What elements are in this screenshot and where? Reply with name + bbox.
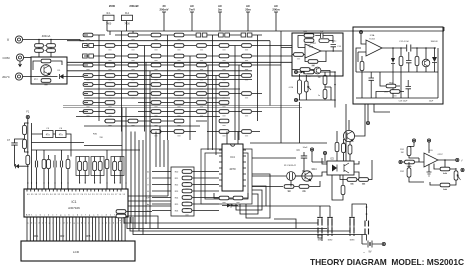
label 20A C — [2, 75, 10, 79]
diode D3 — [16, 164, 28, 168]
resistor R15 (matrix row 2) — [242, 44, 252, 50]
switch SW2 — [327, 217, 333, 236]
label IC6 — [429, 150, 433, 152]
IC1 to LCD pin wires — [27, 217, 125, 241]
svg-text:COM: COM — [3, 56, 11, 60]
junction comb x31.5 — [31, 182, 32, 183]
resistor R35 vertical — [323, 75, 327, 84]
label bank R26 — [175, 211, 178, 213]
long wire to battery — [133, 217, 367, 235]
potentiometer VR2 0.1M — [298, 80, 302, 94]
c9 connect wires — [302, 162, 327, 171]
matrix column wire C — [144, 46, 146, 132]
resistor R43 feedback — [304, 34, 314, 40]
resistor R52 vertical — [47, 159, 51, 168]
junction varistor2 to V wire — [50, 39, 52, 41]
label range 20m — [245, 8, 251, 12]
svg-text:R25: R25 — [175, 204, 178, 206]
resistor in filter group G1 b — [83, 161, 87, 170]
resistor R39 (matrix row 5) — [242, 74, 252, 80]
svg-text:20A°C: 20A°C — [2, 75, 10, 79]
matrix row 5 link wires — [84, 75, 241, 77]
label t out — [461, 160, 463, 163]
long wire to switch SW2 — [127, 217, 327, 229]
wire bus to IC5 area — [250, 142, 327, 144]
IC U4 4070 — [222, 144, 243, 191]
resistor R57 (matrix row 8) — [151, 101, 161, 107]
junction cal b — [334, 84, 336, 86]
resistor R01 in protection box — [41, 59, 51, 65]
diode D5 — [391, 48, 395, 98]
matrix to converter wires — [122, 108, 143, 235]
label F1 — [26, 111, 29, 114]
resistor R38 (matrix row 5) — [219, 74, 229, 80]
filter group G3 lead wires — [115, 157, 121, 184]
wires into IC2B — [270, 48, 292, 106]
resistor R50 — [116, 214, 126, 220]
wire test point down — [27, 119, 29, 188]
resistor R49 — [116, 210, 126, 216]
switch link wires — [318, 218, 354, 242]
resistor R35 (matrix row 5) — [151, 74, 161, 80]
feedback wire — [445, 160, 450, 169]
svg-text:R23: R23 — [175, 191, 178, 193]
R33 to inverting input — [434, 164, 440, 170]
svg-text:4.7k: 4.7k — [443, 173, 447, 175]
resistor R22 vertical — [342, 143, 346, 152]
bus wire range G — [76, 116, 220, 118]
label 4070 — [229, 167, 236, 171]
svg-text:R24: R24 — [175, 198, 178, 200]
junction bat a — [366, 206, 368, 208]
label IC4 — [230, 155, 235, 159]
label 10k — [350, 184, 354, 186]
op-amp U3A triangle — [366, 40, 382, 56]
matrix column wire H — [257, 35, 259, 121]
comb wires up to bus — [37, 150, 69, 161]
svg-text:R26: R26 — [175, 211, 178, 213]
matrix column wire E — [189, 56, 191, 140]
resistor R34b vertical — [323, 89, 327, 98]
resistor R63 (matrix row 9) — [151, 110, 161, 116]
svg-text:DP2: DP2 — [60, 236, 65, 238]
VR top wire — [450, 168, 456, 171]
resistor R23 (matrix row 3) — [242, 54, 252, 60]
junction comb x120.2 — [120, 182, 121, 183]
U6 output wire — [438, 159, 456, 161]
label C6 — [59, 128, 63, 130]
resistor R61 (matrix row 9) — [83, 110, 93, 116]
R49 R50 wires right — [126, 212, 158, 229]
label 9V — [369, 251, 372, 254]
label DP1 — [34, 236, 39, 238]
resistor R16 (matrix row 3) — [83, 54, 94, 58]
label signal A — [147, 171, 149, 174]
svg-text:R20: R20 — [175, 172, 178, 174]
resistor R50 (matrix row 7) — [151, 92, 161, 98]
resistor R28 — [284, 185, 294, 191]
label range 2m — [218, 8, 223, 12]
svg-text:4070: 4070 — [229, 167, 236, 171]
svg-text:10uF: 10uF — [303, 147, 309, 149]
terminal CAL2 — [294, 98, 297, 101]
IC1 bottom segment labels — [26, 214, 127, 217]
resistor R26 (matrix row 4) — [128, 63, 138, 69]
R31 wires — [409, 146, 419, 158]
resistor R31 (matrix row 4) — [242, 63, 252, 69]
long wire to switch SW3 — [130, 217, 350, 231]
matrix column wire K pair — [208, 65, 216, 155]
fuse leads down — [107, 21, 127, 31]
capacitor C19 — [369, 72, 375, 98]
svg-text:IC2B: IC2B — [309, 46, 314, 48]
resistor R59 (matrix row 8) — [197, 101, 207, 107]
IC4 top pin wires to matrix — [227, 132, 238, 145]
label range 200mV — [159, 8, 168, 12]
label C9 — [297, 150, 301, 152]
fuse F1 — [103, 15, 114, 20]
label 1uF — [320, 31, 324, 33]
resistor R60 in bank — [182, 196, 192, 202]
resistor R34 — [440, 183, 450, 189]
resistor R64 (matrix row 9) — [174, 110, 184, 116]
label range AC — [274, 4, 278, 8]
capacitor C9 leads — [303, 152, 305, 171]
svg-text:TL062: TL062 — [369, 38, 376, 40]
resistor R71 (matrix row 10) — [174, 119, 184, 125]
label bank R22 — [175, 185, 178, 187]
junction varistor to V wire — [38, 39, 40, 41]
matrix row 8 link wires — [84, 102, 219, 104]
capacitor C17 — [406, 52, 412, 72]
resistor R53 (matrix row 7) — [219, 92, 229, 98]
AC block bus wires — [356, 48, 438, 98]
resistor R62 (matrix row 9) — [105, 110, 115, 116]
varistor RV3 — [35, 49, 44, 53]
range select stub wires — [164, 12, 276, 31]
resistor R40 — [308, 60, 318, 66]
label 400mA fuse rating — [42, 34, 51, 38]
capacitor C5 47n box — [43, 131, 54, 138]
label 1M — [318, 77, 321, 79]
junction comb x79.6 — [79, 182, 80, 183]
IC U1 A/D converter 7106 — [24, 189, 128, 217]
resistor R14 (matrix row 2) — [219, 44, 229, 50]
label R-2 — [125, 12, 130, 15]
varistor connection wires — [39, 40, 51, 58]
label SW1 — [318, 240, 324, 242]
resistor R36 vertical — [360, 61, 364, 70]
svg-text:2000: 2000 — [109, 4, 116, 8]
IC4 pin ticks — [219, 150, 246, 186]
resistor R41 input — [294, 53, 304, 59]
bank input wires — [152, 172, 171, 211]
resistor R62 in bank — [182, 209, 192, 215]
svg-text:7mV: 7mV — [189, 8, 195, 12]
resistor R70 (matrix row 10) — [151, 119, 161, 125]
R40 loop wires — [305, 51, 326, 62]
junction comb x68 — [67, 182, 68, 183]
matrix row 3 link wires — [84, 55, 292, 57]
resistor R47 vertical — [26, 155, 30, 164]
svg-text:C12 4.7uF: C12 4.7uF — [399, 41, 409, 43]
svg-text:2m: 2m — [218, 8, 223, 12]
label R40 1M — [312, 65, 315, 67]
resistor R2 (matrix row 1) — [128, 33, 138, 39]
resistor R45 (matrix row 6) — [197, 83, 207, 89]
label bank R21 — [175, 178, 178, 180]
bank output wires to IC4 — [192, 172, 219, 211]
svg-text:47n: 47n — [59, 134, 64, 137]
label range 20 — [162, 4, 166, 8]
capacitor C9 — [301, 156, 307, 158]
switch SW1 — [317, 217, 323, 236]
label R31 — [400, 149, 405, 151]
label 10.7k — [407, 166, 412, 168]
label 47k — [302, 191, 306, 193]
resistor in filter group G2 b — [98, 161, 102, 170]
junction comb x114.6 — [114, 182, 115, 183]
resistor R46 (matrix row 6) — [219, 83, 229, 89]
svg-text:OP07: OP07 — [437, 154, 443, 156]
R26 R27 wires — [340, 160, 372, 180]
resistor in filter group G1 a — [78, 161, 82, 170]
resistor R31 vertical — [407, 146, 411, 155]
matrix column wire B — [121, 31, 123, 132]
resistor R65 (matrix row 9) — [197, 110, 207, 116]
diode D2 on mA line — [60, 74, 64, 79]
svg-text:200u: 200u — [332, 41, 336, 43]
resistor R22 (matrix row 3) — [219, 54, 229, 60]
cal network drop wire — [299, 102, 301, 143]
IC1 top pin numbers — [27, 194, 125, 196]
op-amp U2B triangle — [305, 44, 321, 58]
AC block left return — [356, 48, 361, 72]
transistor Q2 9014 — [302, 171, 312, 181]
resistor R33 feedback — [440, 167, 450, 173]
resistor R49 (matrix row 7) — [128, 92, 138, 98]
R37 leads — [400, 48, 402, 98]
capacitor C12f box — [319, 39, 333, 43]
svg-text:200m: 200m — [272, 8, 280, 12]
resistor R42 (matrix row 6) — [128, 83, 138, 89]
capacitor C6 47n box — [56, 131, 67, 138]
range stub top bars — [162, 11, 278, 13]
matrix row 2 link wires — [84, 45, 292, 47]
supply terminal wires — [414, 142, 429, 153]
battery switch wire top — [366, 204, 368, 221]
resistor R39 — [386, 84, 396, 90]
terminal t input — [399, 160, 402, 163]
capacitor C14 — [331, 45, 337, 52]
label R32 — [400, 171, 405, 173]
fuse F2 — [122, 15, 133, 20]
label signal C — [147, 178, 149, 180]
label signal &#937; — [147, 191, 149, 193]
svg-text:R21: R21 — [175, 178, 178, 180]
resistor R41 (matrix row 6) — [105, 83, 115, 89]
corner hook wire Z — [232, 186, 266, 206]
resistor R7 (matrix row 1) — [241, 33, 252, 37]
junction comb x61.5 — [61, 182, 62, 183]
resistor R48 (matrix row 7) — [105, 92, 115, 98]
lower resistor wires — [376, 72, 404, 98]
label LCD — [73, 250, 80, 254]
resistor R20 (matrix row 3) — [174, 54, 184, 60]
resistor R54 vertical — [105, 159, 109, 168]
resistor R11 (matrix row 2) — [151, 44, 161, 50]
svg-text:1M: 1M — [312, 65, 315, 67]
label 10uF — [303, 147, 309, 149]
terminal COM input — [16, 54, 23, 61]
resistor R1 (matrix row 1) — [83, 33, 93, 39]
R30 wires — [402, 158, 424, 168]
calibration network wires — [296, 72, 335, 108]
label 201 — [384, 92, 388, 94]
matrix column top stubs — [110, 31, 133, 35]
IC1 wire verticals to bank — [168, 167, 186, 206]
below-IC4 wires — [214, 193, 248, 198]
mid section wires — [291, 176, 320, 187]
capacitor C16 — [406, 80, 412, 98]
svg-text:C18 10uF: C18 10uF — [399, 101, 409, 103]
resistor R51 vertical — [42, 159, 46, 168]
svg-text:SW3: SW3 — [350, 240, 356, 242]
wires below AC block — [368, 104, 390, 121]
Q5 leads — [425, 48, 427, 72]
junction comb x100.2 — [100, 182, 101, 183]
resistor R38 vertical — [415, 56, 419, 65]
label 200u — [332, 41, 336, 43]
ground symbol — [427, 164, 432, 176]
label 1M — [401, 152, 404, 154]
resistor R64 below IC4 — [233, 196, 243, 202]
svg-text:40 39 38 37 36 35 34 33 32 31: 40 39 38 37 36 35 34 33 32 31 30 29 28 2… — [27, 194, 125, 196]
junction cal c — [334, 99, 336, 101]
resistor R61 in bank — [182, 202, 192, 208]
switch bottom wires — [318, 218, 350, 239]
label range 7mV — [189, 8, 195, 12]
potentiometer VR3 — [305, 81, 312, 92]
label 1.5k — [443, 189, 447, 191]
transistor Q5 — [422, 59, 430, 67]
svg-text:DP1: DP1 — [34, 236, 39, 238]
label TL062 — [310, 43, 317, 45]
svg-text:1M: 1M — [287, 191, 290, 193]
wire hook to switch line — [274, 219, 296, 229]
battery left wire — [361, 235, 363, 245]
matrix row 10 link wires — [104, 120, 207, 122]
comb wires to IC1 right pins — [107, 150, 126, 189]
resistor R32 (matrix row 5) — [83, 74, 93, 80]
label u mark — [363, 252, 365, 254]
resistor R33 (matrix row 5) — [105, 74, 115, 80]
label R30 — [93, 134, 98, 136]
label 9014 — [311, 169, 317, 171]
label C18 10uF — [399, 101, 409, 103]
resistor R27 (matrix row 4) — [151, 63, 161, 69]
switch SW4 battery — [365, 221, 369, 235]
svg-text:IC3A: IC3A — [370, 34, 375, 37]
capacitor C13f — [315, 33, 333, 38]
resistor R34 (matrix row 5) — [128, 74, 138, 80]
resistor R66 (matrix row 9) — [219, 110, 229, 116]
resistor R25 (matrix row 4) — [105, 63, 115, 69]
svg-text:ST-C3039-4Y: ST-C3039-4Y — [284, 165, 297, 167]
label bank R20 — [175, 172, 178, 174]
resistor R56 in bank — [182, 170, 192, 176]
resistor R9 (matrix row 2) — [105, 44, 115, 50]
junction comb x27.8 — [27, 182, 28, 183]
resistor R17 (matrix row 3) — [105, 54, 115, 60]
resistor R36 (matrix row 5) — [174, 74, 184, 80]
label 1N4148 — [430, 41, 438, 43]
corner hook wire C — [246, 174, 270, 218]
routing loop wire inner — [205, 153, 248, 199]
terminal TP2 — [323, 151, 326, 154]
resistor R12 (matrix row 2) — [174, 44, 184, 50]
filter group G3 box — [111, 157, 124, 176]
long wire to switch SW1 — [124, 217, 318, 223]
potentiometer VR1 vertical — [454, 171, 458, 180]
junction comb x107 — [106, 182, 107, 183]
resistor R48 — [390, 90, 400, 96]
matrix row 1 link wires — [84, 34, 262, 36]
matrix column wire G — [234, 46, 236, 141]
terminal V+ supply — [412, 139, 415, 142]
top bus wire — [107, 30, 444, 32]
LCD pin name row — [27, 223, 124, 225]
svg-text:R-1: R-1 — [107, 12, 112, 15]
title text THEORY DIAGRAM MODEL: MS2001C — [310, 257, 464, 267]
resistor branch wires — [25, 123, 28, 152]
resistor R60 (matrix row 8) — [219, 101, 229, 107]
svg-text:0.1M: 0.1M — [289, 87, 294, 89]
resistor R29 — [299, 185, 309, 191]
resistor R51 (matrix row 7) — [174, 92, 184, 98]
bus wire range F — [84, 97, 230, 99]
resistor R55 (matrix row 8) — [83, 101, 93, 107]
resistor R5 (matrix row 1) — [196, 33, 207, 37]
svg-text:LCD: LCD — [73, 250, 80, 254]
bottom row wires IC2B box — [292, 70, 330, 77]
terminal V- supply — [427, 139, 430, 142]
resistor R19 (matrix row 3) — [151, 54, 161, 60]
svg-text:9V: 9V — [369, 251, 372, 254]
label ST-C3039-4Y — [284, 165, 297, 167]
junction comb x48.5 — [48, 182, 49, 183]
R32 wires — [409, 162, 424, 182]
corner hook wire A — [240, 194, 258, 214]
diode D6 — [432, 48, 437, 72]
label 10uF — [429, 101, 434, 103]
terminal T+ — [359, 30, 362, 33]
svg-text:R-2: R-2 — [125, 12, 130, 15]
resistor R63 below IC4 — [219, 196, 229, 202]
U3A output wire — [382, 47, 436, 49]
terminal mA input — [15, 73, 22, 80]
resistor R40 (matrix row 6) — [83, 83, 93, 89]
resistor R23 vertical — [348, 145, 352, 154]
resistor R4 (matrix row 1) — [174, 33, 184, 39]
resistor R24 (matrix row 4) — [83, 63, 93, 69]
transistor Q3 — [343, 130, 354, 141]
resistor R57 in bank — [182, 176, 192, 182]
svg-text:200mV: 200mV — [159, 8, 168, 12]
top bus into AC block — [443, 27, 445, 31]
label 7400 — [124, 23, 130, 26]
resistor R30 (matrix row 4) — [219, 63, 229, 69]
